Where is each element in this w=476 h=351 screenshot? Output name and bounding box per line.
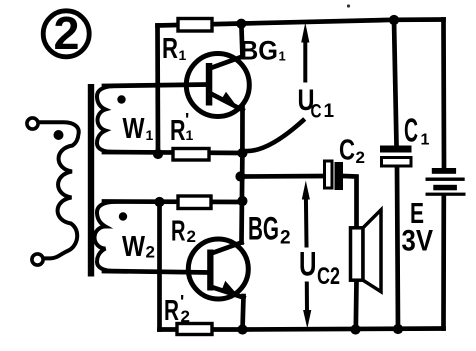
wire C2 right lead to speaker corner and down xyxy=(343,176,357,228)
svg-text:C: C xyxy=(339,135,355,167)
svg-text:2: 2 xyxy=(146,243,155,262)
svg-text:2: 2 xyxy=(181,307,190,326)
junction R1' / BG1 emitter xyxy=(237,148,247,158)
wire battery top lead from rail corner xyxy=(441,20,446,169)
svg-text:R: R xyxy=(170,115,186,147)
transformer secondary winding W2 xyxy=(95,202,115,271)
speaker xyxy=(351,210,382,292)
svg-text:1: 1 xyxy=(186,127,194,143)
svg-text:R: R xyxy=(162,33,178,65)
resistor R2 xyxy=(178,196,211,209)
svg-text:C: C xyxy=(311,102,322,123)
capacitor C2 plates xyxy=(325,161,344,190)
wire left upper vertical: rail corner down to W1 bottom node xyxy=(155,26,160,155)
svg-text:C: C xyxy=(404,112,418,149)
svg-text:1: 1 xyxy=(324,101,335,122)
transformer primary winding with terminals xyxy=(27,118,79,265)
voltage arrow U_C2 (double headed) xyxy=(302,181,312,329)
resistor R1 xyxy=(178,19,212,32)
svg-text:R: R xyxy=(164,295,179,327)
wire W1 top line to BG1 base xyxy=(104,85,206,87)
wire bottom rail (ground) xyxy=(160,329,444,330)
svg-text:1: 1 xyxy=(421,132,430,149)
figure number badge circled 2 xyxy=(43,7,89,59)
W1 polarity dot xyxy=(117,95,125,103)
svg-text:1: 1 xyxy=(279,49,286,64)
W2 polarity dot xyxy=(119,212,127,220)
junction C1 / bottom rail xyxy=(393,324,403,334)
junction top rail / BG1 collector xyxy=(236,19,246,29)
wire C1 upper lead from top rail xyxy=(394,20,397,146)
wire C1 lower lead to bottom rail xyxy=(397,166,398,329)
svg-text:BG: BG xyxy=(240,36,278,66)
svg-text:C2: C2 xyxy=(317,263,340,290)
transistor BG1 xyxy=(186,54,249,117)
resistor R2' xyxy=(177,324,212,335)
U_C1 leader curve to emitter node xyxy=(245,121,303,152)
junction top rail / C1 xyxy=(389,15,399,25)
svg-text:3V: 3V xyxy=(402,225,434,258)
junction R2 / BG2 collector xyxy=(237,196,247,206)
svg-text:R: R xyxy=(171,216,186,248)
svg-text:W: W xyxy=(123,113,146,145)
svg-text:1: 1 xyxy=(179,47,187,63)
svg-text:2: 2 xyxy=(356,148,365,167)
wire W2 bottom line to BG2 base xyxy=(104,271,208,273)
svg-text:1: 1 xyxy=(146,127,154,143)
transformer secondary winding W1 xyxy=(97,86,114,152)
wire BG2 emitter vertical down to bottom rail xyxy=(243,296,244,330)
resistor R1' xyxy=(173,149,209,161)
junction speaker / bottom rail xyxy=(350,324,360,334)
wire C2 left lead from center vertical xyxy=(241,174,325,179)
wire W2 top / R2 line xyxy=(104,199,242,204)
wire center vertical: emitter node through C2 tap and R2 node to BG2 collector xyxy=(239,153,245,243)
junction W1 bottom / R1 divider node xyxy=(153,149,163,159)
wire left lower vertical: W2 top node down to bottom rail corner xyxy=(157,202,162,330)
transformer primary polarity dot xyxy=(54,130,64,140)
wire W1 bottom / R1' line: winding to emitter node xyxy=(104,152,242,153)
voltage arrow U_C1 xyxy=(301,23,309,81)
wire BG1 collector vertical to top rail xyxy=(241,22,242,57)
svg-text:U: U xyxy=(299,246,317,284)
wire battery bottom lead to rail corner xyxy=(441,196,446,329)
svg-text:BG: BG xyxy=(248,211,279,247)
wire top rail (+ supply) from left corner to battery corner xyxy=(158,20,444,26)
wire speaker bottom lead to rail xyxy=(353,280,358,330)
scan speck xyxy=(347,4,350,7)
wire BG1 emitter vertical down to R1' node xyxy=(240,108,245,154)
svg-text:2: 2 xyxy=(280,228,291,249)
transformer core xyxy=(88,84,94,277)
capacitor C1 plates xyxy=(380,146,412,167)
svg-text:W: W xyxy=(122,231,146,263)
battery E plates xyxy=(426,168,466,196)
transistor BG2 xyxy=(188,239,248,299)
junction BG2 emitter / bottom rail xyxy=(237,324,247,334)
svg-text:2: 2 xyxy=(187,227,196,246)
svg-text:2: 2 xyxy=(54,7,80,59)
junction W2 top / left vertical xyxy=(154,197,164,207)
junction C2 tap on center vertical xyxy=(235,171,245,181)
